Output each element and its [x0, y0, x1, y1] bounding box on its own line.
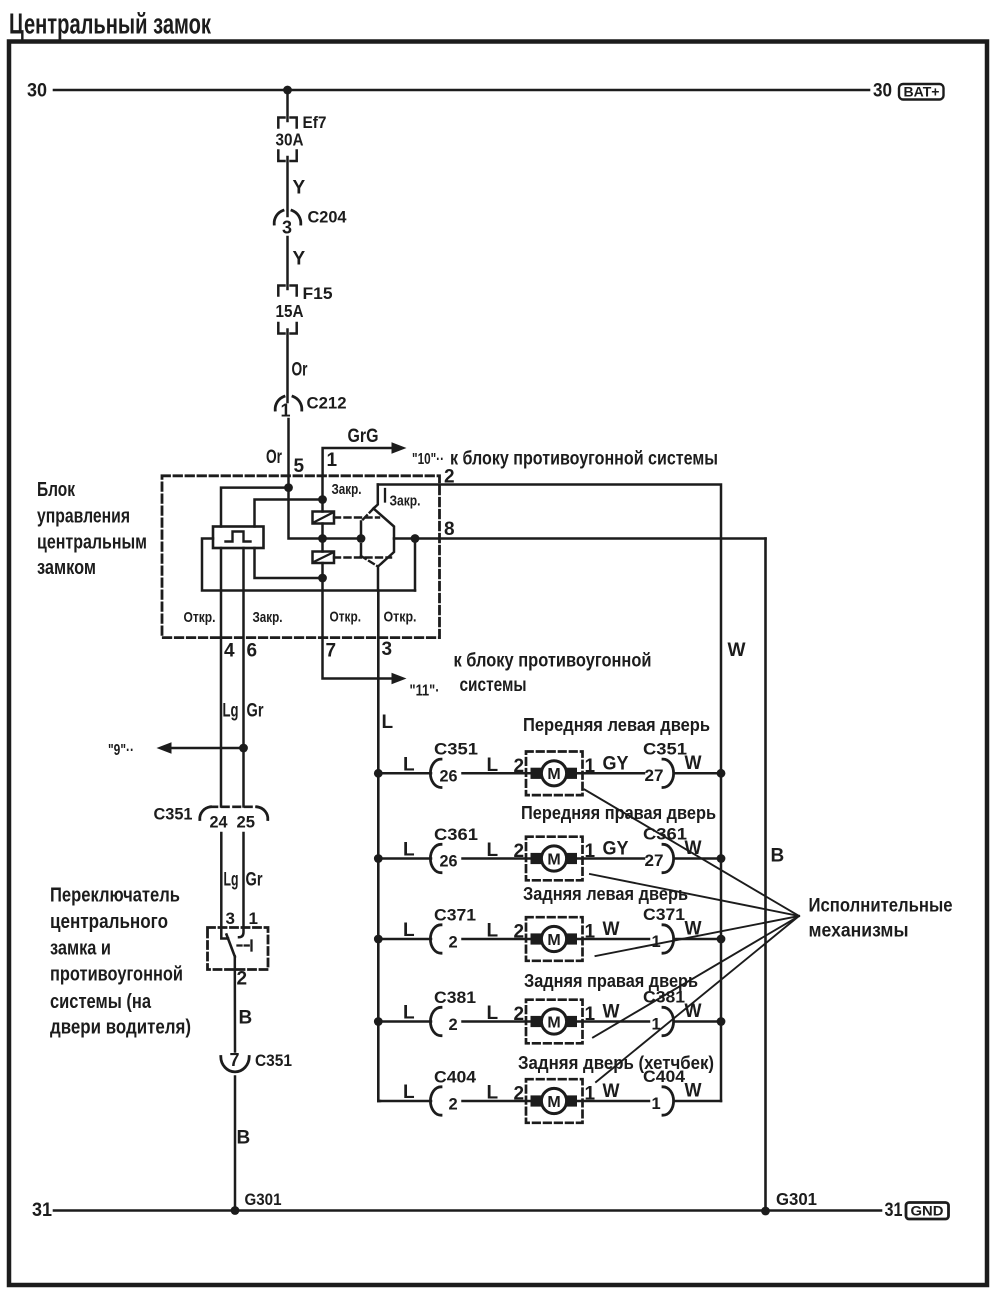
relay coil open — [313, 552, 335, 564]
svg-text:1: 1 — [585, 1004, 596, 1025]
wire L connector to motor row C361 — [463, 857, 532, 860]
junction W bus row C361 — [717, 854, 726, 863]
svg-text:W: W — [685, 1081, 702, 1102]
changeover contact (lens) of lock motor driver — [374, 485, 378, 509]
wire motor to right connector row C404 — [577, 1100, 649, 1103]
wire timer box left loop to changeover common rail — [202, 539, 415, 591]
wire from bus 30 to fuse Ef7 — [286, 90, 289, 121]
svg-text:C204: C204 — [308, 208, 348, 227]
svg-text:C371: C371 — [643, 905, 685, 924]
junction arrow 9 branch — [239, 744, 248, 753]
svg-text:Задняя левая дверь: Задняя левая дверь — [523, 884, 688, 904]
svg-text:"11"·: "11"· — [410, 683, 440, 700]
svg-text:2: 2 — [237, 969, 248, 990]
wire L feed row C381 — [378, 1020, 431, 1023]
svg-text:Переключатель: Переключатель — [50, 885, 180, 907]
svg-text:7: 7 — [229, 1050, 239, 1070]
svg-text:Откр.: Откр. — [384, 609, 417, 626]
svg-text:L: L — [403, 920, 415, 941]
door lock motor M row C361 — [526, 837, 583, 881]
svg-text:L: L — [403, 1003, 415, 1024]
svg-text:L: L — [487, 1083, 499, 1104]
svg-text:Закр.: Закр. — [253, 609, 283, 626]
svg-text:M: M — [547, 851, 560, 868]
svg-text:центрального: центрального — [50, 911, 168, 933]
svg-text:1: 1 — [585, 1084, 596, 1105]
wire motor to right connector row C371 — [577, 938, 649, 941]
svg-text:G301: G301 — [245, 1190, 282, 1209]
svg-text:Gr: Gr — [247, 701, 264, 722]
svg-text:24: 24 — [210, 814, 229, 832]
connector C351 pins 24 25 — [200, 807, 211, 820]
wire pin 8 B bus down to ground — [764, 539, 767, 1212]
door lock motor M row C371 — [526, 917, 583, 961]
svg-text:W: W — [685, 838, 702, 859]
dashed link coil open to contact — [334, 556, 391, 558]
svg-text:замка и: замка и — [50, 938, 111, 960]
svg-text:31: 31 — [885, 1200, 903, 1221]
wire switch output pin 2 — [234, 957, 237, 1052]
svg-text:W: W — [603, 919, 620, 940]
wire L bus from pin 3 down to hatch row — [377, 591, 380, 1102]
svg-text:Y: Y — [293, 249, 306, 270]
wire Or F15 to C212 — [286, 330, 289, 403]
svg-text:B: B — [237, 1128, 251, 1149]
wire pin5 junction to left loop into timer box — [221, 488, 289, 527]
svg-text:"10"··: "10"·· — [412, 451, 444, 468]
wire L connector to motor row C371 — [463, 938, 532, 941]
svg-text:L: L — [487, 840, 499, 861]
svg-text:L: L — [487, 921, 499, 942]
svg-text:2: 2 — [514, 922, 525, 943]
svg-text:7: 7 — [326, 641, 337, 662]
svg-text:W: W — [685, 753, 702, 774]
junction W bus row C381 — [717, 1017, 726, 1026]
contact common rail to pin 8 — [323, 537, 362, 540]
switch fixed contact (pin 3 side) — [221, 928, 228, 939]
arrow to "9" — [157, 742, 172, 754]
svg-text:Ef7: Ef7 — [303, 113, 327, 132]
svg-text:W: W — [728, 640, 746, 661]
wire L feed row C361 — [378, 857, 431, 860]
svg-text:C351: C351 — [255, 1051, 292, 1070]
pointer lines to actuators — [585, 790, 800, 917]
svg-text:25: 25 — [237, 814, 256, 832]
wire pin 6 (Gr) down to connector C351-25 — [242, 548, 245, 807]
svg-text:M: M — [547, 1014, 560, 1031]
svg-text:центральным: центральным — [37, 532, 147, 554]
svg-text:G301: G301 — [776, 1189, 817, 1209]
svg-text:"9"··: "9"·· — [108, 742, 134, 759]
junction L bus row C381 — [374, 1017, 383, 1026]
junction W bus row C351 — [717, 769, 726, 778]
wire Y fuse to C204 — [286, 157, 289, 216]
svg-text:C212: C212 — [307, 394, 347, 413]
svg-text:Lg: Lg — [223, 701, 239, 722]
svg-text:Откр.: Откр. — [330, 609, 362, 626]
svg-text:2: 2 — [514, 1084, 525, 1105]
svg-text:W: W — [603, 1081, 620, 1102]
svg-text:1: 1 — [652, 933, 661, 951]
wire bus 30 — [54, 89, 869, 92]
junction on bus 30 — [283, 86, 292, 95]
svg-text:1: 1 — [585, 756, 596, 777]
svg-text:L: L — [403, 754, 415, 775]
door lock motor M row C404 — [526, 1079, 583, 1123]
arrow to anti-theft unit "11" — [392, 673, 407, 685]
fuse F15 15A — [278, 286, 284, 296]
svg-text:L: L — [403, 840, 415, 861]
wire W to bus row C361 — [676, 857, 722, 860]
svg-text:Or: Or — [292, 360, 308, 381]
svg-text:M: M — [547, 1094, 560, 1111]
junction L bus row C361 — [374, 854, 383, 863]
svg-text:механизмы: механизмы — [809, 921, 909, 942]
junction pin 1 branch — [318, 495, 327, 504]
svg-text:управления: управления — [37, 506, 130, 528]
wire Y C204 to fuse F15 — [286, 237, 289, 289]
svg-text:1: 1 — [280, 401, 290, 421]
svg-text:GY: GY — [603, 839, 629, 860]
timer/control sub-box with pulse symbol — [213, 527, 264, 549]
svg-text:L: L — [382, 712, 394, 733]
arrow to anti-theft unit "10" — [392, 442, 407, 454]
dashed link coil close to contact — [334, 516, 379, 518]
wire pin 7 to anti-theft arrow 11 — [323, 638, 392, 679]
wire motor to right connector row C361 — [577, 857, 644, 860]
svg-text:системы (на: системы (на — [50, 991, 152, 1013]
svg-text:Lg: Lg — [224, 870, 239, 891]
wire arrow 9 branch — [171, 747, 244, 750]
wire L connector to motor row C351 — [463, 772, 532, 775]
svg-text:1: 1 — [249, 909, 258, 928]
svg-text:W: W — [603, 1002, 620, 1023]
junction L bus row C371 — [374, 935, 383, 944]
wire GrG pin 1 to anti-theft arrow — [323, 448, 391, 476]
svg-text:Передняя правая дверь: Передняя правая дверь — [521, 803, 716, 823]
svg-text:Закр.: Закр. — [390, 493, 421, 510]
svg-text:системы: системы — [460, 675, 527, 696]
svg-text:C404: C404 — [434, 1067, 477, 1086]
svg-text:Передняя левая дверь: Передняя левая дверь — [523, 715, 710, 735]
svg-text:3: 3 — [226, 909, 235, 928]
svg-text:C361: C361 — [434, 825, 478, 844]
junction pin 8 node — [411, 534, 420, 543]
junction contact pivot — [357, 534, 366, 543]
wire B to ground rail — [234, 1077, 237, 1211]
wire pin5 feed down to relay common — [289, 488, 323, 539]
wire L feed row C371 — [378, 938, 431, 941]
wire pin 4 (Lg) down to connector C351-24 — [220, 548, 223, 807]
svg-text:L: L — [487, 755, 499, 776]
svg-text:W: W — [685, 1001, 702, 1022]
svg-text:B: B — [771, 846, 785, 867]
svg-text:Блок: Блок — [37, 479, 76, 501]
switch moving arm — [227, 935, 235, 957]
junction relay bottom — [318, 574, 327, 583]
svg-text:27: 27 — [645, 767, 664, 785]
svg-text:C381: C381 — [434, 988, 476, 1007]
switch pin 1 stub with hook — [239, 928, 244, 938]
ground G301 left — [231, 1206, 240, 1215]
wire L feed row C351 — [378, 772, 431, 775]
svg-text:C404: C404 — [643, 1067, 686, 1086]
svg-text:Закр.: Закр. — [332, 481, 362, 498]
svg-text:GND: GND — [911, 1203, 944, 1219]
driver door lock/anti-theft switch dashed box — [208, 928, 269, 970]
junction L bus row C351 — [374, 769, 383, 778]
svg-text:1: 1 — [652, 1095, 661, 1113]
svg-text:2: 2 — [514, 841, 525, 862]
wire W to bus row C351 — [676, 772, 722, 775]
wire bus 31 ground rail — [54, 1209, 881, 1212]
central lock control unit dashed box — [162, 476, 440, 638]
svg-text:C351: C351 — [643, 739, 687, 758]
svg-text:3: 3 — [282, 218, 292, 238]
svg-text:30: 30 — [873, 81, 892, 102]
svg-text:1: 1 — [585, 922, 596, 943]
wire relay chain vertical — [321, 476, 324, 512]
svg-text:Or: Or — [266, 447, 282, 468]
svg-text:30: 30 — [27, 81, 47, 102]
svg-text:Центральный замок: Центральный замок — [9, 9, 211, 41]
wire pin 2 to W bus — [378, 485, 721, 1102]
switch dashed contact throw — [238, 944, 250, 946]
svg-text:4: 4 — [224, 641, 235, 662]
svg-text:Откр.: Откр. — [184, 609, 216, 626]
wire motor to right connector row C381 — [577, 1020, 649, 1023]
junction W bus row C371 — [717, 935, 726, 944]
GND terminal box — [906, 1203, 949, 1220]
svg-text:C351: C351 — [154, 805, 193, 824]
wire timer box bottom loop to relay bottom — [255, 548, 323, 578]
ground G301 right — [761, 1207, 770, 1216]
svg-text:6: 6 — [247, 641, 258, 662]
wire W to bus row C381 — [676, 1020, 722, 1023]
svg-text:2: 2 — [449, 934, 458, 952]
svg-text:30A: 30A — [276, 130, 304, 150]
wire L feed row C404 — [378, 1100, 431, 1103]
svg-text:L: L — [487, 1003, 499, 1024]
label |Закр. at contact — [384, 489, 386, 502]
BAT+ terminal box — [899, 84, 944, 100]
svg-text:Исполнительные: Исполнительные — [809, 896, 953, 917]
svg-text:27: 27 — [645, 852, 664, 870]
wire W to bus row C371 — [676, 938, 722, 941]
wire L connector to motor row C404 — [463, 1100, 532, 1103]
wire W to bus row C404 — [676, 1100, 722, 1103]
svg-text:3: 3 — [382, 639, 393, 660]
svg-text:Gr: Gr — [246, 870, 263, 891]
svg-text:GY: GY — [603, 753, 629, 774]
wire L connector to motor row C381 — [463, 1020, 532, 1023]
svg-text:15A: 15A — [276, 301, 304, 321]
svg-text:1: 1 — [327, 450, 338, 471]
svg-text:8: 8 — [444, 519, 455, 540]
connector C351 pin 7 — [221, 1057, 249, 1072]
svg-text:26: 26 — [440, 767, 458, 785]
svg-text:F15: F15 — [303, 284, 333, 303]
svg-text:5: 5 — [294, 456, 305, 477]
wire pin8 node down to common loop — [414, 539, 417, 591]
svg-text:Y: Y — [293, 178, 306, 199]
svg-text:26: 26 — [440, 853, 458, 871]
door lock motor M row C351 — [526, 752, 583, 796]
svg-text:L: L — [403, 1082, 415, 1103]
svg-text:GrG: GrG — [348, 426, 379, 447]
wire Lg to door switch pin 3 — [220, 833, 223, 928]
svg-text:двери водителя): двери водителя) — [50, 1017, 191, 1039]
svg-text:2: 2 — [449, 1016, 458, 1034]
svg-text:к блоку противоугонной системы: к блоку противоугонной системы — [450, 449, 718, 470]
svg-text:C351: C351 — [434, 740, 478, 759]
junction pin 5 — [284, 483, 293, 492]
wire Or C212 to control unit pin 5 — [287, 419, 290, 488]
relay coil close — [313, 512, 335, 524]
svg-text:C371: C371 — [434, 905, 476, 924]
svg-text:31: 31 — [32, 1200, 52, 1221]
fuse Ef7 30A — [278, 118, 284, 128]
wire L bus corner into hatch row — [378, 1100, 380, 1103]
svg-text:замком: замком — [37, 557, 96, 579]
junction relay common — [318, 534, 327, 543]
connector C212 pin 1 — [275, 396, 284, 410]
wire motor to right connector row C351 — [577, 772, 644, 775]
svg-text:M: M — [547, 932, 560, 949]
svg-text:2: 2 — [514, 756, 525, 777]
wire pin1 loop into timer box — [255, 500, 323, 527]
door lock motor M row C381 — [526, 1000, 583, 1044]
svg-text:BAT+: BAT+ — [904, 85, 940, 100]
connector C204 pin 3 — [274, 210, 283, 224]
svg-text:B: B — [239, 1008, 253, 1029]
svg-text:1: 1 — [585, 841, 596, 862]
svg-text:2: 2 — [514, 1004, 525, 1025]
svg-text:M: M — [547, 766, 560, 783]
wire Gr to door switch pin 1 — [242, 833, 245, 928]
svg-text:к блоку противоугонной: к блоку противоугонной — [454, 651, 652, 672]
svg-text:2: 2 — [449, 1096, 458, 1114]
svg-text:противоугонной: противоугонной — [50, 964, 183, 986]
